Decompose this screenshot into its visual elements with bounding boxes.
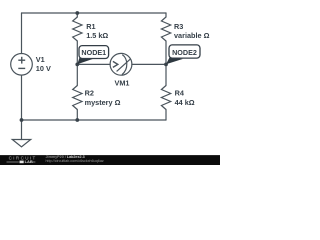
wire ground stem [21,120,23,140]
wire R3 bottom lead [165,41,167,64]
wire left rail upper [21,13,23,54]
junction dot bottom R2 [75,118,79,122]
wire R1 top lead [76,13,78,17]
svg-text:R3: R3 [174,22,183,31]
junction dot node2 [164,63,168,67]
svg-text:44 kΩ: 44 kΩ [175,98,195,107]
svg-text:NODE1: NODE1 [81,48,106,57]
wire R4 top lead [165,64,167,85]
resistor R3 [161,17,170,41]
label R1 value [86,22,108,40]
label R2 value [85,89,121,107]
svg-text:R2: R2 [85,89,94,98]
node NODE2 flag [166,45,200,64]
svg-text:LAB: LAB [25,159,33,164]
resistor R1 [73,17,82,41]
node NODE1 flag [77,46,108,65]
svg-text:http://circuitlab.com/c6sckxh6: http://circuitlab.com/c6sckxh6uq6az [46,159,104,163]
junction dot top R1 [75,11,79,15]
watermark logo LAB row [7,161,36,163]
ground [12,140,30,147]
svg-text:10 V: 10 V [36,64,51,73]
svg-text:VM1: VM1 [114,79,129,88]
voltage source V1 [11,54,33,76]
svg-text:R4: R4 [175,89,185,98]
wire R2 bottom lead [76,110,78,121]
wire bottom rail [22,119,167,121]
voltmeter VM1 [110,53,132,75]
svg-text:R1: R1 [86,22,95,31]
watermark bar [0,155,220,165]
svg-text:1.5 kΩ: 1.5 kΩ [86,31,108,40]
wire voltmeter right [132,63,166,65]
wire top rail [22,12,167,14]
wire voltmeter left [77,63,110,65]
resistor R2 [73,86,82,110]
wire R1 bottom lead [76,41,78,64]
junction dot ground [20,118,24,122]
wire R2 top lead [76,64,78,85]
svg-text:mystery Ω: mystery Ω [85,98,121,107]
resistor R4 [161,86,170,110]
label R4 value [175,89,195,107]
wire R3 top lead [165,13,167,17]
svg-text:V1: V1 [36,55,45,64]
svg-text:variable Ω: variable Ω [174,31,210,40]
wire R4 bottom lead [165,110,167,121]
wire left rail lower [21,75,23,120]
svg-text:CIRCUIT: CIRCUIT [9,155,38,160]
label V1 value [36,55,51,73]
svg-text:NODE2: NODE2 [172,48,197,57]
label R3 value [174,22,210,40]
junction dot node1 [75,63,79,67]
